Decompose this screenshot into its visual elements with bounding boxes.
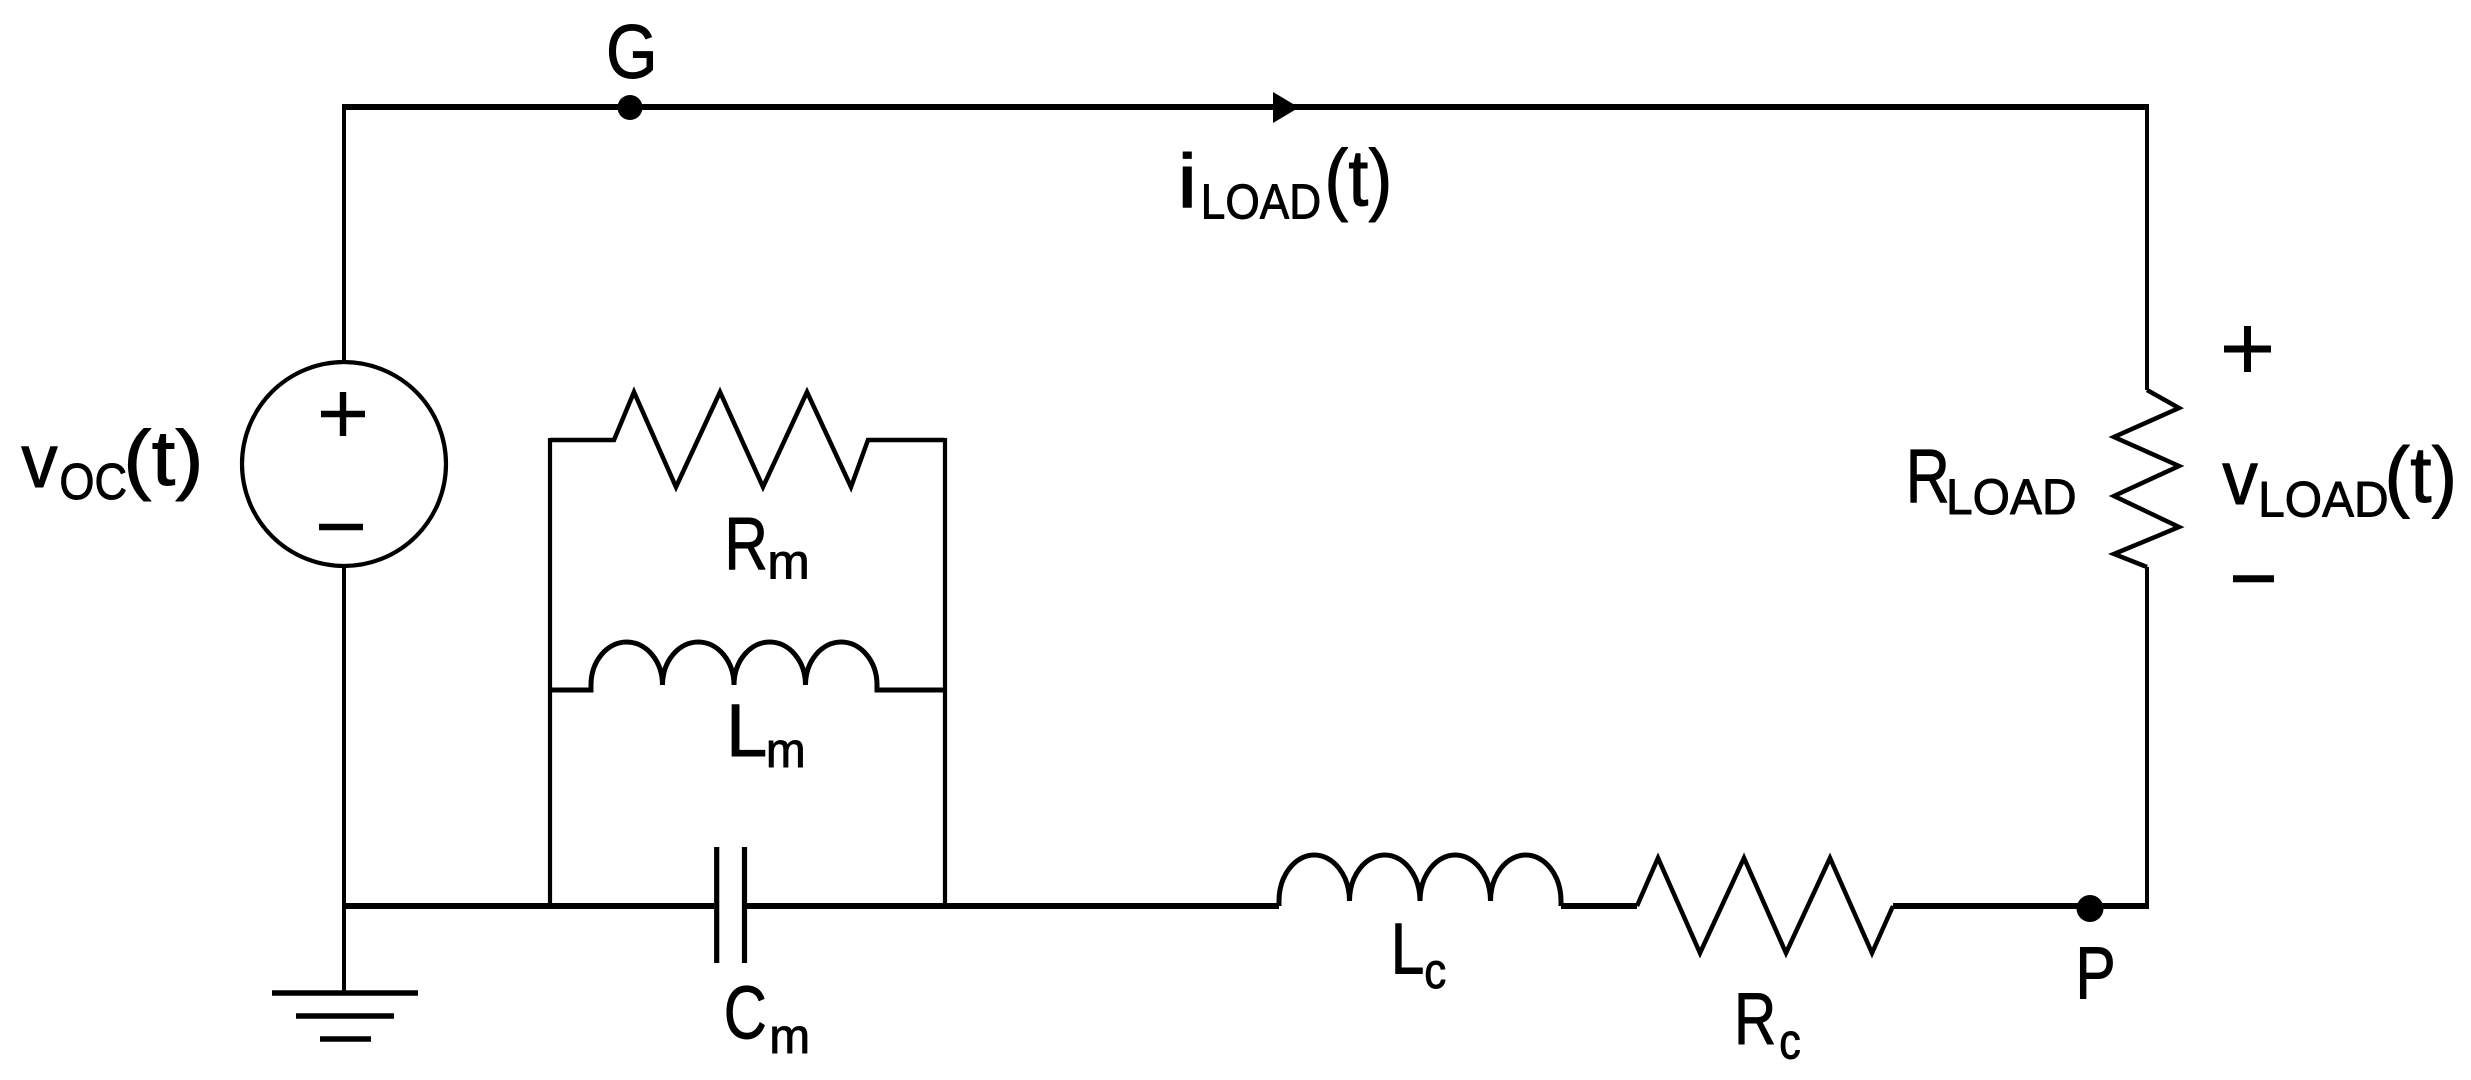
svg-text:R: R [1734,979,1776,1060]
svg-text:m: m [769,1010,810,1064]
svg-text:C: C [724,971,767,1055]
svg-text:v: v [2222,436,2258,521]
svg-text:LOAD: LOAD [1201,175,1321,229]
svg-text:G: G [606,10,658,95]
svg-text:(t): (t) [1324,134,1392,223]
svg-text:LOAD: LOAD [2258,472,2389,528]
svg-text:L: L [726,689,767,772]
svg-text:i: i [1177,139,1197,224]
svg-text:LOAD: LOAD [1946,469,2077,525]
svg-text:P: P [2075,932,2115,1015]
svg-text:R: R [724,502,768,585]
svg-text:OC: OC [59,453,127,510]
svg-text:(t): (t) [123,414,204,502]
svg-text:(t): (t) [2384,430,2457,519]
svg-text:v: v [21,419,57,504]
svg-text:m: m [766,724,806,778]
svg-text:c: c [1779,1013,1801,1069]
svg-text:L: L [1391,910,1425,990]
svg-text:m: m [767,535,809,589]
svg-text:R: R [1906,435,1950,520]
svg-text:c: c [1424,943,1446,999]
